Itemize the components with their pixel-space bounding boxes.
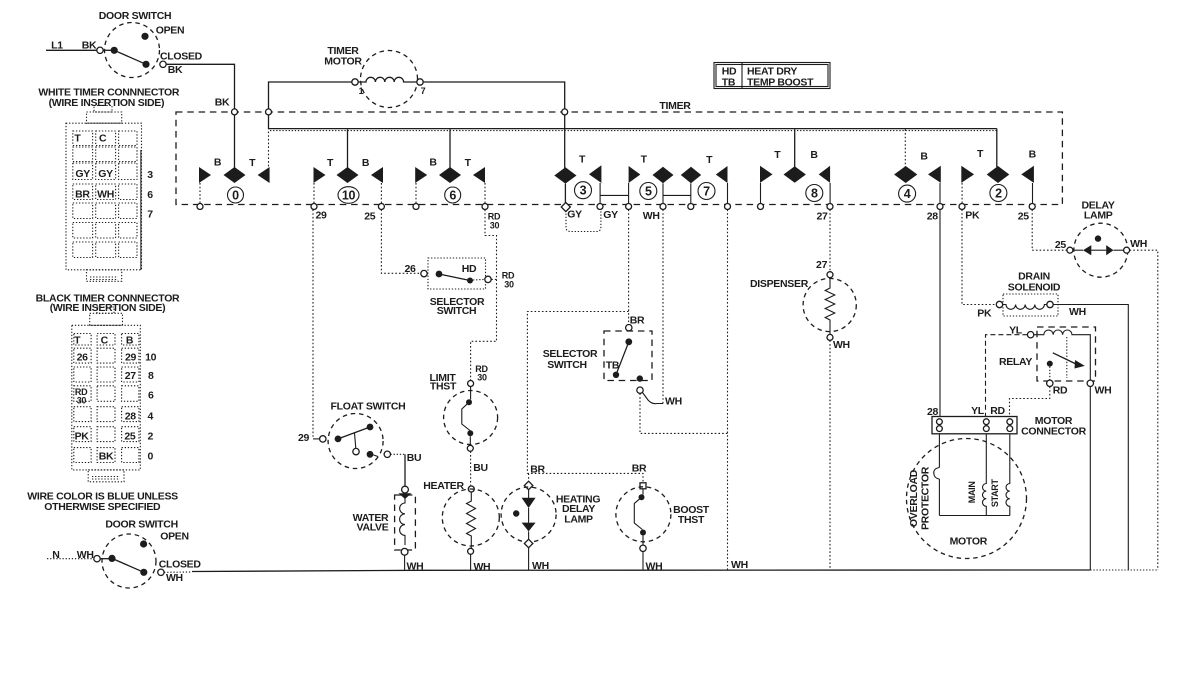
svg-text:27: 27	[816, 259, 828, 271]
svg-text:29: 29	[125, 352, 137, 364]
svg-text:30: 30	[477, 373, 487, 383]
svg-text:TIMER: TIMER	[659, 100, 691, 112]
svg-text:GY: GY	[567, 209, 582, 221]
svg-text:BU: BU	[407, 452, 422, 464]
svg-text:RD: RD	[1053, 385, 1068, 397]
svg-text:T: T	[327, 157, 334, 169]
svg-text:BK: BK	[99, 451, 114, 463]
svg-text:RD: RD	[990, 405, 1005, 417]
svg-text:WH: WH	[1130, 238, 1147, 250]
svg-text:27: 27	[125, 370, 137, 382]
svg-text:8: 8	[148, 370, 154, 382]
cam switch 10	[311, 129, 384, 222]
node L1	[46, 40, 97, 52]
cam switch 5	[600, 153, 673, 222]
svg-text:T: T	[641, 153, 648, 165]
svg-text:MAIN: MAIN	[967, 481, 977, 503]
wire BU limit to heater	[471, 451, 488, 485]
motor connector	[927, 405, 1087, 438]
timer box	[176, 100, 1062, 205]
svg-text:3: 3	[580, 184, 587, 198]
svg-text:(WIRE INSERTION SIDE): (WIRE INSERTION SIDE)	[50, 302, 166, 314]
svg-text:LAMP: LAMP	[1084, 210, 1113, 222]
cam switch 7	[663, 154, 731, 210]
svg-text:CLOSED: CLOSED	[159, 559, 202, 571]
float switch	[298, 401, 406, 469]
svg-text:OVERLOAD: OVERLOAD	[908, 469, 920, 527]
svg-text:FLOAT SWITCH: FLOAT SWITCH	[331, 401, 406, 413]
svg-text:4: 4	[148, 411, 154, 423]
svg-text:BR: BR	[632, 463, 647, 475]
svg-text:BR: BR	[630, 315, 645, 327]
boost thermostat	[616, 483, 710, 573]
svg-text:30: 30	[490, 221, 500, 231]
heating delay lamp	[501, 473, 600, 572]
svg-text:SWITCH: SWITCH	[437, 305, 477, 317]
timer motor M1	[269, 45, 565, 109]
svg-text:PK: PK	[75, 431, 90, 443]
svg-text:TB: TB	[722, 77, 736, 89]
svg-text:RELAY: RELAY	[999, 356, 1032, 368]
wire BR branch to heating delay lamp	[527, 312, 628, 474]
svg-text:PROTECTOR: PROTECTOR	[919, 466, 931, 530]
svg-text:29: 29	[298, 432, 310, 444]
limit thermostat	[430, 364, 498, 451]
svg-text:WH: WH	[473, 561, 490, 573]
svg-text:B: B	[920, 151, 928, 163]
svg-text:YL: YL	[971, 405, 985, 417]
wire L1 to DS1 common	[103, 49, 111, 51]
wire BR to boost thst	[527, 463, 647, 483]
svg-text:OTHERWISE SPECIFIED: OTHERWISE SPECIFIED	[44, 501, 161, 513]
overload protector	[934, 434, 1010, 516]
svg-text:WH: WH	[97, 189, 114, 201]
wire BK from DS1 to timer	[166, 64, 234, 108]
svg-text:26: 26	[404, 263, 416, 275]
door switch DS2 (bottom)	[47, 519, 201, 589]
selector switch SW2 (TB)	[543, 325, 652, 394]
wire WH from TB selector down to bus	[640, 393, 728, 433]
cam switch 6	[413, 129, 501, 230]
svg-text:T: T	[774, 149, 781, 161]
svg-text:C: C	[101, 335, 109, 347]
svg-text:8: 8	[811, 187, 818, 201]
svg-text:T: T	[74, 133, 81, 145]
svg-text:28: 28	[927, 211, 939, 223]
svg-text:25: 25	[364, 211, 376, 223]
svg-text:B: B	[362, 157, 370, 169]
svg-text:T: T	[465, 157, 472, 169]
svg-text:MOTOR: MOTOR	[950, 536, 988, 548]
drain solenoid	[962, 210, 1128, 571]
motor	[907, 439, 1027, 559]
svg-text:WH: WH	[833, 339, 850, 351]
svg-text:GY: GY	[603, 209, 618, 221]
svg-text:TB: TB	[606, 360, 620, 372]
svg-text:25: 25	[1055, 239, 1067, 251]
svg-text:WH: WH	[731, 559, 748, 571]
svg-text:30: 30	[504, 280, 514, 290]
svg-text:26: 26	[77, 352, 89, 364]
legend box HD/TB	[714, 63, 830, 89]
svg-text:25: 25	[1018, 211, 1030, 223]
wire WH relay to bus	[1089, 387, 1091, 571]
svg-text:PK: PK	[965, 210, 980, 222]
svg-text:BK: BK	[215, 97, 230, 109]
svg-text:T: T	[579, 154, 586, 166]
svg-text:0: 0	[232, 189, 239, 203]
svg-text:BR: BR	[75, 189, 90, 201]
svg-text:OPEN: OPEN	[156, 25, 185, 37]
cam switch 2	[959, 129, 1037, 223]
heater	[423, 480, 499, 573]
svg-text:6: 6	[449, 189, 456, 203]
cam switch 8	[758, 129, 834, 222]
motor start winding	[990, 434, 1010, 516]
svg-text:B: B	[429, 156, 437, 168]
wire 29 to float switch	[313, 210, 320, 439]
svg-text:10: 10	[145, 352, 157, 364]
wire RD relay to motor connector	[1010, 387, 1050, 417]
motor main winding	[967, 434, 987, 516]
svg-text:T: T	[74, 335, 81, 347]
svg-text:OPEN: OPEN	[160, 531, 189, 543]
wire YL relay to motor connector	[986, 335, 1028, 417]
svg-text:T: T	[249, 157, 256, 169]
svg-text:7: 7	[147, 209, 153, 221]
svg-text:WH: WH	[1069, 306, 1086, 318]
svg-text:BR: BR	[530, 464, 545, 476]
svg-text:25: 25	[124, 431, 136, 443]
wire BR cam5 to TB selector	[629, 210, 645, 327]
cam switch 4	[894, 129, 943, 222]
relay	[999, 325, 1112, 397]
wire 25 to selector switch	[381, 210, 421, 276]
node BK on timer border	[232, 109, 238, 115]
svg-text:HEATER: HEATER	[423, 480, 464, 492]
svg-text:7: 7	[421, 86, 426, 96]
svg-text:CONNECTOR: CONNECTOR	[1021, 426, 1086, 438]
svg-text:C: C	[99, 133, 107, 145]
svg-text:10: 10	[342, 189, 356, 203]
svg-text:T: T	[977, 148, 984, 160]
svg-text:WH: WH	[643, 210, 660, 222]
water valve	[353, 486, 424, 572]
wire WH bottom bus	[164, 560, 1158, 572]
delay lamp	[1032, 200, 1158, 571]
svg-text:B: B	[810, 149, 818, 161]
svg-text:WH: WH	[166, 572, 183, 584]
svg-text:VALVE: VALVE	[357, 522, 389, 534]
svg-text:WH: WH	[1095, 385, 1112, 397]
svg-text:PK: PK	[977, 308, 992, 320]
wire BU float switch to water valve	[391, 452, 422, 486]
svg-text:LAMP: LAMP	[564, 514, 593, 526]
svg-text:START: START	[990, 478, 1000, 507]
svg-text:1: 1	[359, 86, 364, 96]
svg-text:BU: BU	[473, 462, 488, 474]
svg-text:4: 4	[904, 187, 911, 201]
svg-text:27: 27	[816, 211, 828, 223]
selector switch SW1 (HD)	[421, 258, 515, 317]
svg-text:MOTOR: MOTOR	[324, 56, 362, 68]
svg-text:6: 6	[147, 189, 153, 201]
svg-text:DISPENSER: DISPENSER	[750, 278, 809, 290]
svg-text:(WIRE INSERTION SIDE): (WIRE INSERTION SIDE)	[49, 97, 165, 109]
wire RD 30 from timer to limit thst	[471, 210, 497, 381]
svg-text:WH: WH	[665, 396, 682, 408]
svg-text:B: B	[1029, 149, 1037, 161]
wire bus inside timer	[269, 115, 997, 131]
svg-text:THST: THST	[678, 514, 705, 526]
svg-text:0: 0	[148, 451, 154, 463]
dispenser	[750, 210, 856, 571]
door switch DS1 (top)	[97, 10, 203, 78]
svg-text:B: B	[126, 335, 134, 347]
svg-text:2: 2	[148, 431, 154, 443]
svg-text:SOLENOID: SOLENOID	[1008, 282, 1061, 294]
svg-text:3: 3	[147, 169, 153, 181]
svg-text:T: T	[706, 154, 713, 166]
svg-text:TEMP BOOST: TEMP BOOST	[747, 77, 814, 89]
svg-text:GY: GY	[98, 168, 113, 180]
wire WH from TB selector to timer	[643, 210, 682, 408]
node timer-motor left on border	[266, 109, 272, 115]
svg-text:GY: GY	[75, 168, 90, 180]
cam switch 0	[197, 115, 270, 210]
wire 28 timer to motor connector	[939, 210, 941, 417]
note wire color	[27, 491, 178, 514]
svg-text:BK: BK	[168, 64, 183, 76]
svg-text:CLOSED: CLOSED	[160, 51, 203, 63]
svg-text:29: 29	[315, 210, 327, 222]
svg-text:DOOR SWITCH: DOOR SWITCH	[105, 519, 178, 531]
white timer connector J1	[38, 87, 180, 282]
svg-text:SWITCH: SWITCH	[547, 359, 587, 371]
svg-text:6: 6	[148, 390, 154, 402]
svg-text:2: 2	[995, 187, 1002, 201]
black timer connector J2	[36, 293, 180, 482]
node timer-motor right on border	[562, 109, 568, 115]
svg-text:THST: THST	[430, 381, 457, 393]
svg-text:DOOR SWITCH: DOOR SWITCH	[99, 10, 172, 22]
cam switch 3	[554, 115, 618, 232]
svg-text:5: 5	[645, 185, 652, 199]
svg-text:30: 30	[77, 396, 87, 406]
svg-text:HD: HD	[462, 263, 477, 275]
svg-text:7: 7	[703, 185, 710, 199]
svg-text:28: 28	[125, 411, 137, 423]
wire WH cam7 drop to bus	[728, 210, 748, 572]
svg-text:B: B	[214, 156, 222, 168]
